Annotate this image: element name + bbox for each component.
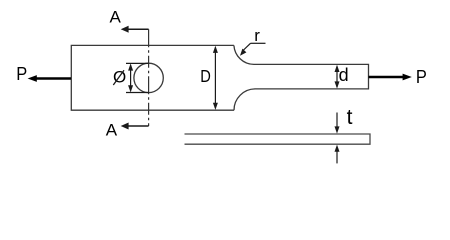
force arrow P right (thick) xyxy=(369,74,412,81)
side view thin plate (edge view) xyxy=(185,134,371,144)
dimension Ø (hole diameter) xyxy=(126,63,149,92)
svg-text:A: A xyxy=(106,121,118,140)
svg-text:D: D xyxy=(200,66,211,86)
svg-text:r: r xyxy=(254,26,260,45)
section arrow A top xyxy=(121,26,149,33)
section arrow A bottom xyxy=(121,123,149,130)
fillet radius leader r xyxy=(240,43,266,56)
dimension t (thickness) xyxy=(335,113,340,164)
dimension d (narrow section width) xyxy=(335,65,340,89)
svg-text:t: t xyxy=(347,106,353,129)
dimension D (wide section width) xyxy=(213,46,218,110)
svg-text:d: d xyxy=(339,65,349,85)
force arrow P left (thick) xyxy=(28,75,71,82)
plate outline (top view of flat bar specimen) xyxy=(71,45,368,110)
svg-text:P: P xyxy=(16,64,27,84)
hole (circle) xyxy=(134,63,163,92)
centerline / section line A-A (dash-dot vertical) xyxy=(148,29,150,126)
svg-text:P: P xyxy=(416,67,427,87)
svg-text:A: A xyxy=(110,8,122,27)
